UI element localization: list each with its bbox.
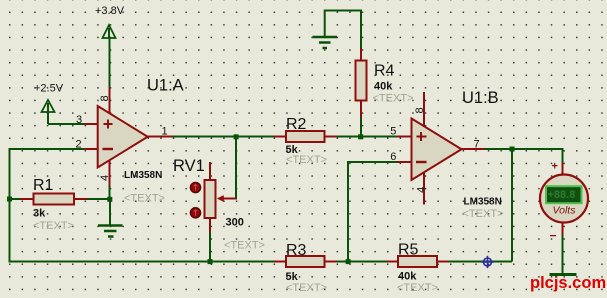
svg-text:3k: 3k (33, 207, 46, 219)
node junction pin7/feedback (510, 147, 515, 152)
svg-text:U1:B: U1:B (462, 89, 499, 107)
svg-text:<TEXT>: <TEXT> (286, 282, 327, 294)
svg-text:8: 8 (414, 107, 426, 113)
potentiometer RV1 (190, 162, 236, 233)
op-amp U1:A (85, 87, 173, 186)
wire to R1 left (10, 198, 21, 200)
svg-text:<TEXT>: <TEXT> (373, 92, 414, 104)
svg-text:+: + (552, 161, 558, 173)
svg-text:R2: R2 (286, 116, 307, 133)
svg-text:Volts: Volts (553, 205, 577, 217)
op-amp U1:B (397, 92, 485, 205)
svg-text:R4: R4 (374, 63, 395, 80)
wire RV1 bottom to rail (209, 233, 211, 262)
svg-text:R5: R5 (398, 241, 419, 258)
node junction R4 bottom (358, 134, 363, 139)
svg-text:300: 300 (226, 216, 244, 228)
node junction RV1 wiper tap (234, 134, 239, 139)
svg-text:+3.8V: +3.8V (95, 5, 125, 17)
svg-text:LM358N: LM358N (124, 170, 162, 181)
resistor R2 (274, 131, 337, 142)
svg-text:3: 3 (76, 114, 82, 126)
svg-text:R1: R1 (33, 177, 54, 194)
resistor R3 (274, 256, 337, 267)
wire +2.5V to pin3 (48, 123, 85, 125)
svg-text:<TEXT>: <TEXT> (463, 208, 504, 220)
svg-text:4: 4 (415, 187, 427, 193)
svg-text:40k: 40k (374, 81, 393, 93)
wire feedback riser (511, 149, 513, 262)
svg-text:U1:A: U1:A (147, 76, 184, 94)
wire left rail down (10, 199, 275, 262)
svg-text:−: − (550, 229, 557, 243)
wire R2 to pin5 (337, 136, 397, 138)
svg-text:4: 4 (99, 175, 111, 181)
wire pin6 from bottom rail (348, 162, 397, 262)
svg-text:+88.8: +88.8 (548, 189, 576, 201)
resistor R4 (356, 48, 367, 118)
svg-text:<TEXT>: <TEXT> (397, 282, 438, 294)
wire tap down to RV1 wiper (230, 139, 236, 199)
wire voltmeter minus to ground terminal (562, 235, 564, 274)
svg-text:R3: R3 (286, 242, 307, 259)
resistor R1 (20, 194, 87, 205)
wire pin1 output line (173, 136, 275, 138)
svg-text:+2.5V: +2.5V (34, 82, 64, 94)
wire pin4 node down to ground (109, 186, 111, 199)
wire pin7 to voltmeter (485, 149, 563, 162)
svg-text:<TEXT>: <TEXT> (33, 220, 74, 232)
svg-text:8: 8 (99, 95, 111, 101)
ground terminal (T-bar) (550, 273, 577, 276)
origin marker (blue crosshair) (481, 256, 493, 268)
wire pin8 U1:A to +3.8V (109, 38, 111, 87)
node junction left rail / R1 (7, 197, 12, 202)
ground (top) (313, 37, 338, 48)
node junction bottom rail / pin6 (346, 259, 351, 264)
svg-text:<TEXT>: <TEXT> (124, 193, 165, 205)
voltmeter VM1 (540, 161, 588, 243)
svg-text:RV1: RV1 (173, 157, 205, 175)
node junction pin4/ground (107, 197, 112, 202)
wire pin2 to left rail (10, 149, 85, 199)
power +3.8V terminal (103, 25, 116, 38)
svg-text:1: 1 (162, 125, 168, 137)
wire R4 top to ground (325, 11, 361, 49)
svg-text:40k: 40k (398, 271, 417, 283)
resistor R5 (387, 256, 449, 267)
wire R1 right to pin4 node (87, 198, 110, 200)
wire R4 bottom to junction (360, 118, 362, 137)
svg-text:LM358N: LM358N (464, 196, 502, 207)
svg-text:7: 7 (474, 139, 480, 151)
wire R3 to R5 (337, 261, 387, 263)
power +2.5V terminal (42, 100, 55, 124)
wire R5 right to feedback riser (449, 261, 513, 263)
ground (left) (98, 226, 123, 237)
svg-text:5: 5 (390, 126, 396, 138)
svg-text:<TEXT>: <TEXT> (224, 239, 265, 251)
svg-text:<TEXT>: <TEXT> (286, 154, 327, 166)
svg-text:plcjs.com: plcjs.com (530, 274, 606, 292)
node junction RV1/bottom rail (208, 259, 213, 264)
